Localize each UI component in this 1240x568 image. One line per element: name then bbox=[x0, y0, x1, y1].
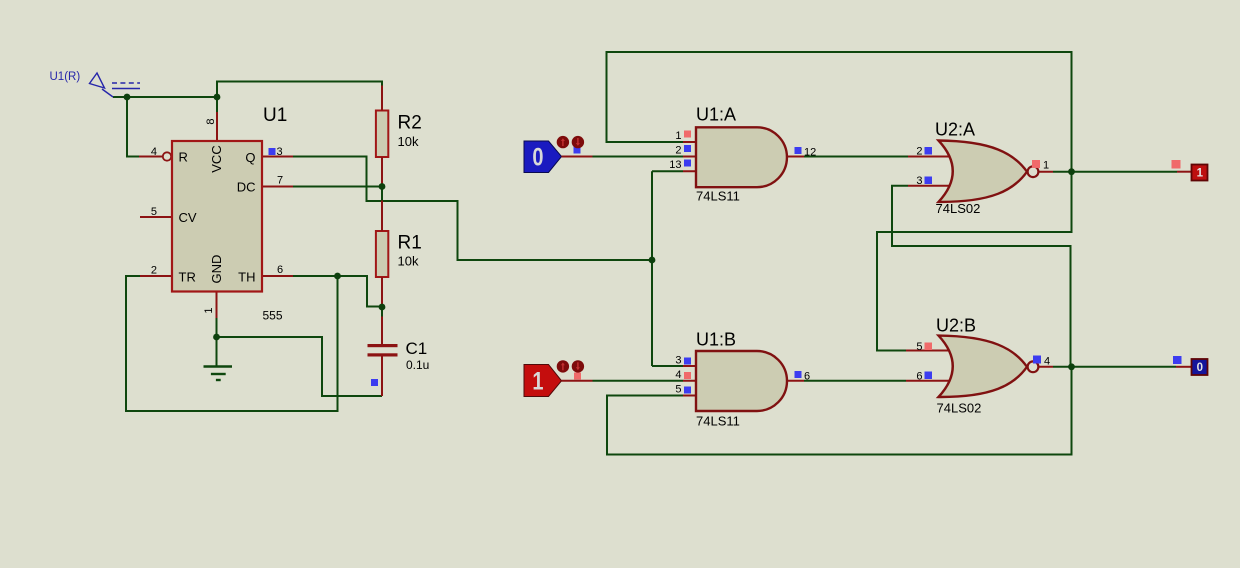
resistor R2 bbox=[376, 111, 422, 158]
svg-text:R2: R2 bbox=[398, 113, 422, 134]
svg-text:U1(R): U1(R) bbox=[50, 71, 81, 83]
svg-text:555: 555 bbox=[263, 309, 283, 323]
svg-text:2: 2 bbox=[675, 145, 681, 157]
svg-text:DC: DC bbox=[237, 180, 256, 195]
svg-text:74LS11: 74LS11 bbox=[696, 414, 740, 429]
junction TH node bbox=[334, 273, 341, 280]
svg-text:U2:A: U2:A bbox=[935, 120, 975, 140]
and gate U1:A 74LS11 bbox=[669, 105, 816, 204]
pin 3 state square bbox=[269, 148, 276, 155]
svg-text:4: 4 bbox=[151, 146, 157, 158]
svg-text:74LS02: 74LS02 bbox=[937, 401, 982, 416]
pin 3 stub bbox=[262, 156, 293, 158]
svg-text:10k: 10k bbox=[398, 134, 419, 149]
svg-text:1: 1 bbox=[532, 367, 543, 395]
pin number 1 rotated bbox=[203, 307, 215, 313]
svg-text:R1: R1 bbox=[398, 233, 422, 254]
pin number 7 bbox=[277, 175, 283, 187]
svg-text:4: 4 bbox=[1044, 356, 1050, 368]
wire VCC node to R2 top bbox=[217, 82, 382, 113]
resistor R1 bbox=[376, 231, 422, 277]
svg-text:1: 1 bbox=[203, 307, 215, 313]
wire DC to R divider node bbox=[293, 187, 382, 201]
pin 6 stub bbox=[262, 275, 293, 277]
svg-text:0: 0 bbox=[532, 143, 543, 171]
wire input1 to U1:B pin4 bbox=[593, 380, 684, 382]
svg-text:U2:B: U2:B bbox=[936, 316, 976, 336]
wire TH to R1/C1 node bbox=[293, 276, 382, 307]
svg-text:TR: TR bbox=[179, 270, 196, 285]
pin number 8 rotated bbox=[205, 118, 217, 124]
label 555 bbox=[263, 309, 283, 323]
svg-text:13: 13 bbox=[669, 159, 681, 171]
capacitor C1 bbox=[368, 317, 430, 397]
svg-text:2: 2 bbox=[916, 146, 922, 158]
pin 5 stub bbox=[140, 216, 172, 218]
svg-text:74LS11: 74LS11 bbox=[696, 189, 740, 204]
svg-text:GND: GND bbox=[209, 255, 224, 284]
svg-text:3: 3 bbox=[675, 355, 681, 367]
pin 1 stub bbox=[216, 292, 218, 319]
svg-text:VCC: VCC bbox=[209, 145, 224, 172]
IC U1 555 body bbox=[172, 141, 262, 292]
junction GND node bbox=[213, 334, 220, 341]
svg-text:5: 5 bbox=[916, 341, 922, 353]
junction node A bbox=[124, 94, 131, 101]
svg-text:CV: CV bbox=[179, 210, 197, 225]
wire pin1 to ground bbox=[216, 318, 218, 366]
wire Q distribution vertical bbox=[652, 171, 683, 366]
pin number 5 bbox=[151, 206, 157, 218]
svg-text:1: 1 bbox=[1043, 160, 1049, 172]
wire ground to C1 bottom bbox=[217, 337, 383, 396]
wire U2:A output to terminal bbox=[1053, 171, 1177, 173]
svg-text:U1: U1 bbox=[263, 105, 287, 126]
svg-text:5: 5 bbox=[675, 384, 681, 396]
svg-text:10k: 10k bbox=[398, 254, 419, 269]
svg-text:U1:B: U1:B bbox=[696, 330, 736, 350]
svg-text:12: 12 bbox=[804, 147, 816, 159]
pin 8 stub bbox=[216, 112, 218, 141]
voltage probe U1(R) bbox=[50, 71, 141, 97]
wire input0 to U1:A pin2 bbox=[593, 156, 684, 158]
nor gate U2:B 74LS02 bbox=[906, 316, 1053, 416]
svg-text:6: 6 bbox=[804, 371, 810, 383]
and gate U1:B 74LS11 bbox=[675, 330, 810, 429]
svg-text:0.1u: 0.1u bbox=[406, 358, 429, 372]
svg-text:1: 1 bbox=[1197, 168, 1204, 180]
wire U2:A out feedback to U2:B pin5 bbox=[877, 172, 1072, 351]
R2 leads bbox=[381, 86, 383, 187]
junction DC node bbox=[379, 183, 386, 190]
svg-text:0: 0 bbox=[1197, 362, 1203, 374]
logic output terminal 1 bbox=[1172, 160, 1208, 181]
svg-text:74LS02: 74LS02 bbox=[936, 201, 981, 216]
R1 leads bbox=[381, 201, 383, 308]
wire top feedback loop to U1:A pin1 bbox=[607, 52, 1072, 172]
svg-text:6: 6 bbox=[277, 264, 283, 276]
logic output terminal 0 bbox=[1173, 356, 1208, 375]
svg-text:R: R bbox=[179, 150, 188, 165]
pin 4 inversion bubble bbox=[163, 152, 171, 160]
svg-text:5: 5 bbox=[151, 206, 157, 218]
logic input 1 bbox=[524, 360, 593, 396]
junction U2:A out node bbox=[1068, 168, 1075, 175]
wire U1:A output to U2:A pin2 bbox=[804, 156, 908, 158]
pin number 4 bbox=[151, 146, 157, 158]
svg-text:3: 3 bbox=[916, 175, 922, 187]
wire TR loop bbox=[126, 276, 338, 411]
svg-text:Q: Q bbox=[245, 150, 255, 165]
label U1 bbox=[263, 105, 287, 126]
wire Q output net bbox=[293, 157, 652, 261]
wire probe to VCC node bbox=[113, 96, 217, 98]
wire U2:B output to terminal bbox=[1053, 366, 1176, 368]
pin number 3 bbox=[277, 146, 283, 158]
wire node A to pin4 R bbox=[127, 97, 139, 157]
wire R1 bottom to C1 top bbox=[381, 307, 383, 317]
wire bottom feedback loop to U1:B pin5 bbox=[607, 367, 1072, 455]
logic input 0 bbox=[524, 136, 593, 173]
junction VCC node bbox=[214, 94, 221, 101]
svg-text:4: 4 bbox=[675, 369, 681, 381]
pin number 6 bbox=[277, 264, 283, 276]
svg-text:3: 3 bbox=[277, 146, 283, 158]
svg-text:7: 7 bbox=[277, 175, 283, 187]
ground bbox=[204, 367, 233, 381]
junction R1/C1 node bbox=[379, 304, 386, 311]
svg-text:2: 2 bbox=[151, 265, 157, 277]
svg-text:8: 8 bbox=[205, 118, 217, 124]
C1 state square bbox=[371, 379, 378, 386]
junction Q distribution node bbox=[649, 257, 656, 264]
pin 2 stub bbox=[140, 275, 172, 277]
wire U2:B out feedback to U2:A pin3 bbox=[892, 186, 1071, 368]
wire U1:B output to U2:B pin6 bbox=[804, 380, 906, 382]
pin 7 stub bbox=[262, 186, 293, 188]
svg-text:C1: C1 bbox=[406, 339, 428, 358]
pin 4 stub bbox=[139, 156, 163, 158]
nor gate U2:A 74LS02 bbox=[908, 120, 1053, 217]
svg-text:6: 6 bbox=[916, 371, 922, 383]
svg-text:1: 1 bbox=[675, 130, 681, 142]
svg-text:U1:A: U1:A bbox=[696, 105, 736, 125]
pin number 2 bbox=[151, 265, 157, 277]
svg-text:TH: TH bbox=[238, 270, 255, 285]
junction U2:B out node bbox=[1068, 363, 1075, 370]
